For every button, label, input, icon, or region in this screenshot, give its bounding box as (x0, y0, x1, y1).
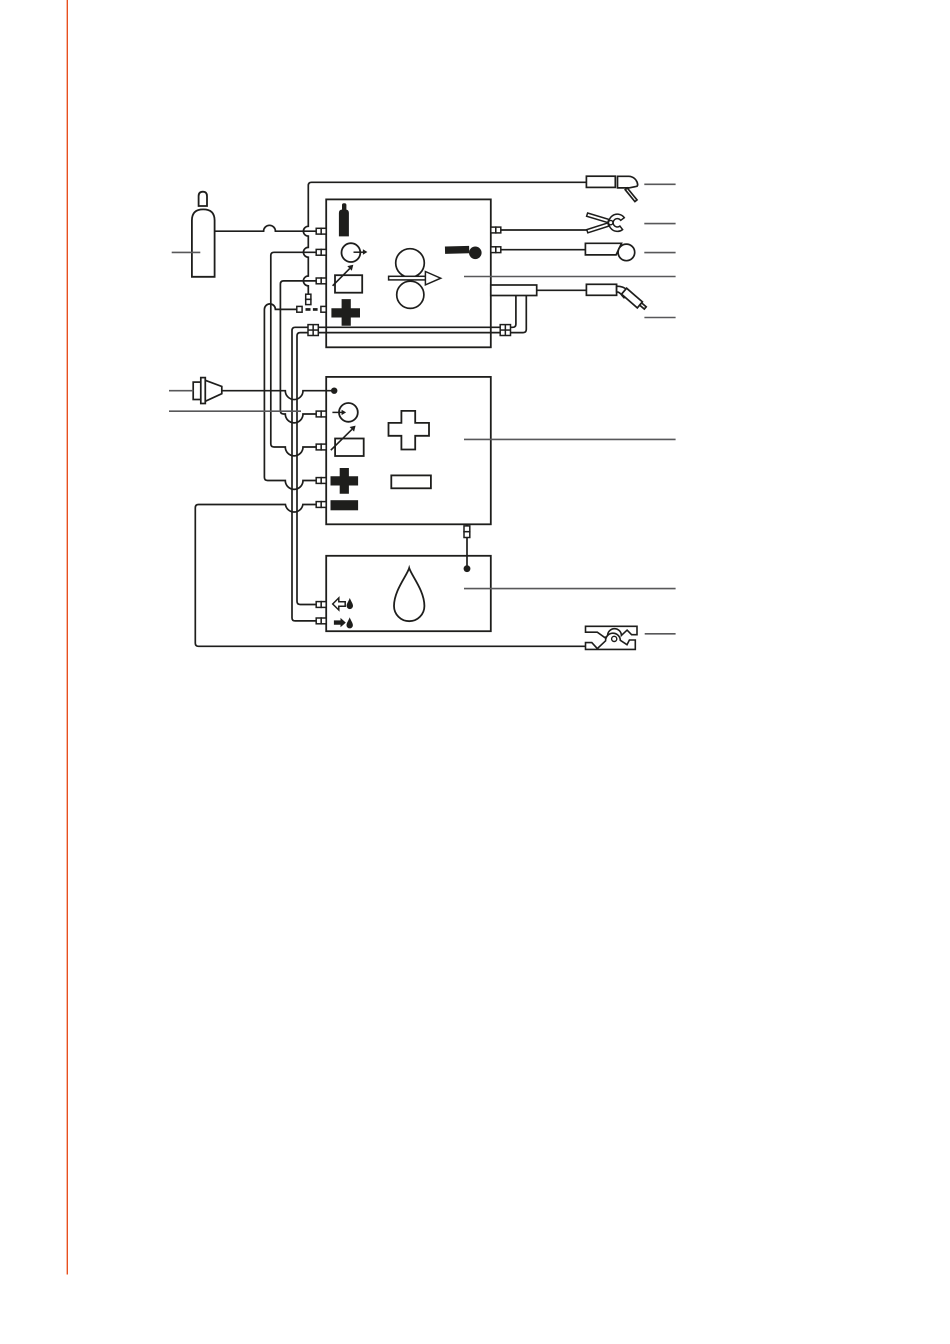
icon torch trigger (feeder) (445, 246, 482, 259)
connector feeder control row2 (316, 249, 326, 255)
node junction dot in cooler (464, 565, 471, 572)
callout line to mig torch (644, 317, 675, 319)
connector feeder gas inlet (316, 228, 326, 234)
connector control link below power source (464, 526, 470, 538)
wire gas hose cylinder to feeder (215, 225, 317, 231)
icon water outlet arrow and drop (cooling unit) (333, 598, 353, 610)
connector cooler water out (316, 602, 326, 608)
connector feeder control row3 (316, 278, 326, 284)
mig welding torch accessory (right) (586, 284, 646, 309)
wire electrode-holder lead to top accessory (303, 182, 586, 294)
cooling unit box (326, 556, 491, 631)
spring clamp accessory (right, small) (587, 213, 625, 233)
icon polarity plus (power source, outline cross) (389, 411, 430, 450)
wire welding current feeder plus to power plus (264, 304, 316, 489)
mains plug (external) (193, 378, 222, 404)
remote control accessory (right, cylinder with knob) (585, 243, 634, 260)
wire remote lead feeder right row1 to clamp accessory (501, 229, 587, 231)
connector feeder right remote row1 (491, 227, 501, 233)
gas cylinder (external, outline) (192, 192, 215, 277)
connector power plus (316, 478, 326, 484)
callout line to gas cylinder (172, 251, 201, 253)
icon plus terminal (power source, solid cross) (331, 468, 359, 494)
wire dashed current link at feeder plus (306, 308, 318, 311)
icon water drop (cooling unit) (394, 568, 424, 621)
SECTION: icons (331, 203, 482, 628)
icon remote control rectangle with arrow (power source) (331, 426, 364, 456)
wire remote lead feeder right row2 to remote accessory (501, 249, 586, 251)
icon mains circle with arrow (power source) (332, 403, 357, 422)
callout line to cooling unit (464, 588, 676, 590)
SECTION: accessories (192, 176, 646, 649)
callout line to wire feed unit (464, 276, 676, 278)
connector power row C (316, 444, 326, 450)
connector feeder plus terminal square (297, 306, 326, 312)
wire torch cable adapter to mig torch (537, 289, 587, 291)
icon remote control rectangle with arrow (feeder) (333, 265, 363, 293)
node junction dot mains input (331, 388, 337, 394)
torch adapter on feeder right edge (491, 285, 537, 296)
work return clamp (bottom right) (586, 626, 638, 649)
callout line to power source (464, 438, 676, 440)
wire mains cable plug to power source (222, 391, 334, 400)
icon gas cylinder (feeder, solid) (339, 203, 349, 236)
connector power minus (316, 502, 326, 508)
icon minus terminal (power source, solid bar) (331, 500, 359, 510)
callout line to work return clamp (645, 633, 676, 635)
callout line to remote control (644, 252, 675, 254)
icon polarity minus (power source, outline bar) (391, 475, 431, 488)
icon feed rollers with wire arrow (feeder) (389, 249, 441, 309)
SECTION: wires (195, 182, 587, 646)
connector inline on electrode holder lead (306, 294, 311, 304)
callout line to mains plug (169, 390, 193, 392)
icon plus terminal (feeder, solid cross) (331, 299, 360, 326)
wire control cable feeder row3 to power row B (280, 281, 316, 423)
connector cooler water in (316, 618, 326, 624)
wire water hose A feeder to cooler inlet (292, 295, 516, 621)
wire feed unit box (326, 199, 491, 347)
icon water inlet arrow and drop (cooling unit) (334, 617, 353, 628)
connector power row B (316, 411, 326, 417)
wire work return lead power minus to clamp (195, 505, 586, 647)
callout line to spring clamp (644, 223, 675, 225)
SECTION: callouts (169, 184, 676, 634)
callout line to interconnection cable bundle (169, 410, 301, 412)
SECTION: boxes (297, 199, 537, 631)
wire control link power source to cooler (466, 524, 468, 566)
callout line to electrode holder (644, 183, 675, 185)
electrode holder accessory (top right) (586, 176, 637, 201)
connector water quick coupling right of feeder (500, 325, 510, 336)
wire water hose B feeder to cooler outlet (297, 295, 526, 605)
power source box (326, 377, 491, 524)
wire control cable feeder row2 to power row C (271, 252, 317, 456)
connector water quick coupling left of feeder (308, 325, 318, 336)
icon wire feed speed circle with arrow (feeder) (342, 243, 368, 262)
connector feeder right remote row2 (491, 247, 501, 253)
